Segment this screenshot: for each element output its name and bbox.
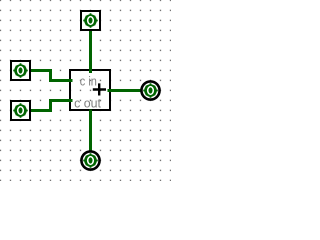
- wire segment: U1 right pin to output pin P4: [108, 89, 142, 92]
- input pin P3 (lower left, square body): [11, 101, 30, 120]
- wire segment: pin P3 rightward (horizontal): [31, 109, 52, 112]
- input pin P2 (upper left, square body): [11, 61, 30, 80]
- svg-text:c in: c in: [80, 74, 97, 89]
- subcircuit box U1: [70, 70, 110, 110]
- output pin P4 (right, round body): [141, 81, 159, 99]
- grid dots: [0, 0, 171, 181]
- wire segment: top pin P1 down to U1 top pin: [89, 31, 92, 73]
- input pin P1 (top, square body): [81, 11, 100, 30]
- pin P5 value indicator "0": [83, 153, 98, 168]
- wire segment: vertical jog down to U1 upper-left pin row: [49, 69, 52, 82]
- wire segment: horizontal into U1 upper-left pin: [49, 79, 73, 82]
- pin P1 value indicator "0": [83, 13, 98, 28]
- anchor cross marker on U1: [93, 83, 106, 95]
- wire segment: vertical jog up to U1 lower-left pin row: [49, 99, 52, 112]
- wire segment: horizontal into U1 lower-left pin: [49, 99, 73, 102]
- pin P2 value indicator "0": [13, 63, 28, 78]
- wire segment: pin P2 rightward (horizontal): [31, 69, 52, 72]
- pin P3 value indicator "0": [13, 103, 28, 118]
- svg-text:c out: c out: [74, 95, 101, 110]
- pin P4 value indicator "0": [143, 83, 158, 98]
- wire segment: U1 bottom pin down to output pin P5: [89, 110, 92, 153]
- output pin P5 (bottom, round body): [81, 151, 99, 169]
